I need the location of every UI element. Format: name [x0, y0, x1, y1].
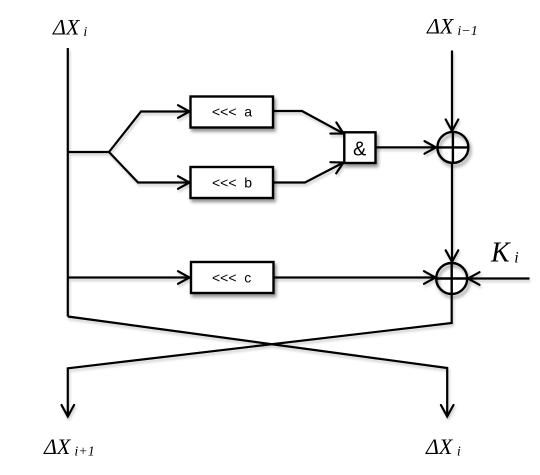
svg-text:ΔXi: ΔXi — [52, 15, 87, 41]
svg-text:ΔXi−1: ΔXi−1 — [426, 14, 478, 40]
wire: AND box output to XOR1 with arrow — [376, 146, 437, 148]
svg-text:ΔXi+1: ΔXi+1 — [43, 434, 95, 460]
box: rotate left by b — [191, 167, 274, 198]
wire: left vertical to box c with arrow — [68, 276, 190, 278]
box: rotate left by c — [191, 262, 274, 293]
wire: branch stub from left vertical — [68, 151, 109, 153]
wire: box a output to AND box with arrow — [273, 111, 344, 134]
wire: left line crossing down to bottom-right output with arrow — [68, 317, 447, 417]
wire: box b output to AND box with arrow — [273, 163, 344, 183]
wire: box c output to XOR2 with arrow — [273, 276, 436, 278]
wire: XOR2 output crossing down to bottom-left output with arrow — [68, 294, 452, 417]
XOR2 cross — [436, 263, 467, 294]
svg-text:&: & — [353, 139, 367, 161]
XOR1 cross — [437, 132, 468, 163]
wire: branch up to box a with arrow — [109, 112, 190, 153]
svg-text:<<< b: <<< b — [212, 175, 252, 191]
wire: left input vertical from dX_i — [67, 48, 69, 317]
wire: XOR1 down to XOR2 with arrow — [451, 163, 453, 262]
wire: top-right input vertical into XOR1 with arrow — [451, 51, 453, 132]
XOR1 circle (top) — [437, 132, 468, 163]
svg-text:ΔXi: ΔXi — [425, 434, 461, 460]
XOR2 circle (bottom) — [436, 263, 467, 294]
svg-text:<<< c: <<< c — [212, 270, 251, 286]
svg-text:<<< a: <<< a — [212, 104, 252, 120]
wire: key K_i into XOR2 from right with arrow — [468, 277, 530, 279]
box: AND gate — [344, 132, 375, 163]
svg-text:Ki: Ki — [490, 238, 519, 269]
box: rotate left by a — [191, 97, 274, 128]
wire: branch down to box b with arrow — [109, 152, 190, 183]
